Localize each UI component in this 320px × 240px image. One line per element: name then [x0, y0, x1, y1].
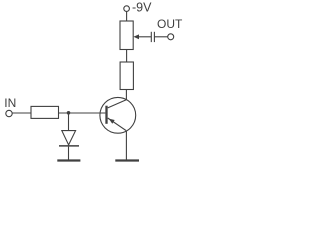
- svg-text:IN: IN: [4, 96, 16, 110]
- svg-text:-9V: -9V: [132, 1, 152, 15]
- svg-text:OUT: OUT: [157, 17, 183, 31]
